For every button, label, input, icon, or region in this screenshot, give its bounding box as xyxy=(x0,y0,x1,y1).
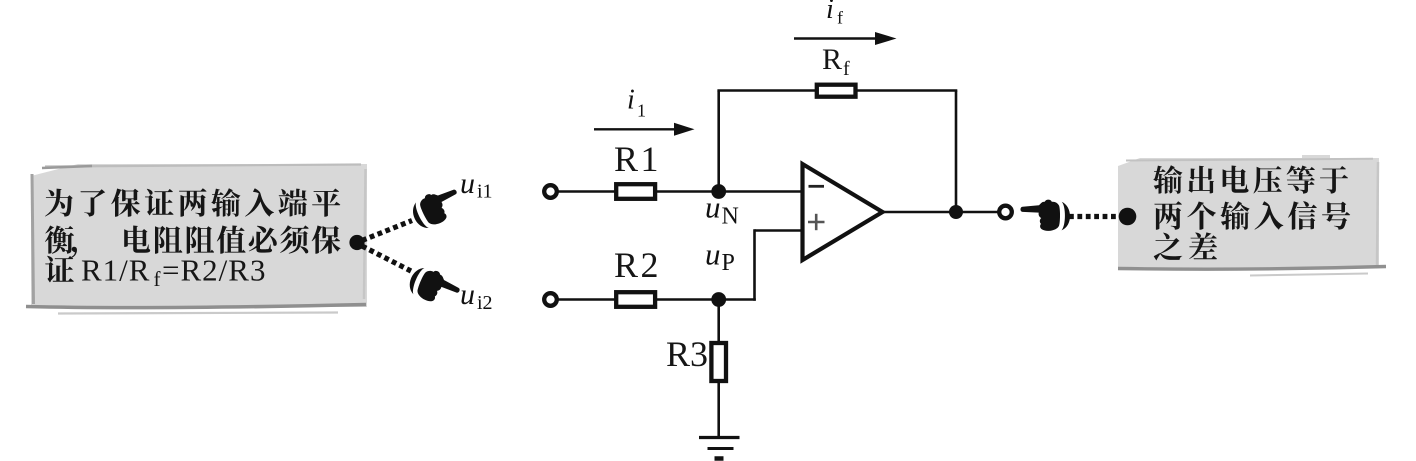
svg-text:f: f xyxy=(154,267,161,291)
wire: feedback top left segment xyxy=(717,89,817,92)
left note callout box xyxy=(26,164,367,314)
pointing hand icon (upper, toward u_i1) xyxy=(408,182,466,232)
svg-text:1: 1 xyxy=(637,101,646,121)
label u_i2 xyxy=(460,278,493,314)
ground symbol xyxy=(699,438,740,459)
wire: R3 to ground xyxy=(717,381,720,438)
current arrow i_f xyxy=(794,32,897,45)
right note text line 1 xyxy=(1153,165,1348,194)
label i_f xyxy=(826,0,843,28)
node u_N junction dot xyxy=(711,184,726,199)
resistor R3 xyxy=(711,343,726,381)
svg-text:R3: R3 xyxy=(666,334,708,374)
wire: op-amp output xyxy=(883,211,1000,214)
label R_f xyxy=(822,43,850,80)
svg-text:u: u xyxy=(460,278,475,311)
input terminal 2 (u_i2) xyxy=(544,293,557,306)
wire: feedback riser from u_N xyxy=(717,91,720,192)
svg-text:f: f xyxy=(843,58,850,80)
pointing hand icon (lower, toward u_i2) xyxy=(405,263,463,311)
svg-text:u: u xyxy=(705,237,721,272)
label u_P xyxy=(705,237,735,277)
dotted leader to hand u_i2 xyxy=(362,246,411,271)
label u_N xyxy=(705,190,739,230)
wire: u_P down to R3 xyxy=(717,300,720,344)
svg-text:u: u xyxy=(705,190,721,225)
current arrow i_1 xyxy=(594,123,695,136)
wire: R1 to inverting input (through node u_N) xyxy=(655,190,802,193)
resistor R1 xyxy=(616,184,655,199)
wire: terminal 1 to R1 xyxy=(557,190,616,193)
right note text line 3 xyxy=(1154,232,1217,260)
node u_P junction dot xyxy=(711,292,726,307)
wire: R2 to node u_P xyxy=(655,298,720,301)
svg-text:=R2/R3: =R2/R3 xyxy=(162,253,266,288)
left note text line 2 xyxy=(45,225,341,257)
right note callout box xyxy=(1118,155,1386,276)
left note text line 3 (证) xyxy=(45,256,74,283)
wire: non-inverting input horizontal xyxy=(755,229,803,232)
svg-text:i: i xyxy=(627,85,635,116)
dotted leader to right note xyxy=(1069,214,1120,219)
left note text line 3 formula R1/Rf=R2/R3 xyxy=(81,253,266,292)
svg-text:P: P xyxy=(722,250,735,276)
leader dot on left note box xyxy=(349,235,364,250)
label i_1 xyxy=(627,85,646,121)
resistor R2 xyxy=(616,292,655,307)
svg-text:R1: R1 xyxy=(614,139,661,179)
svg-text:i: i xyxy=(826,0,834,25)
svg-text:N: N xyxy=(722,204,739,230)
output terminal xyxy=(999,206,1012,219)
svg-text:u: u xyxy=(460,167,475,200)
resistor Rf xyxy=(817,85,856,97)
leader dot on right note box xyxy=(1119,208,1137,226)
op-amp inverting pin mark (-) xyxy=(809,185,825,188)
op-amp U1 triangle xyxy=(803,164,883,260)
dotted leader to hand u_i1 xyxy=(362,221,412,241)
wire: feedback top right segment xyxy=(855,89,957,92)
wire: terminal 2 to R2 xyxy=(557,298,616,301)
svg-text:R1/R: R1/R xyxy=(81,253,150,288)
svg-text:R2: R2 xyxy=(614,245,661,285)
svg-text:f: f xyxy=(837,8,843,28)
svg-text:i2: i2 xyxy=(477,292,493,314)
pointing hand icon (output, toward terminal) xyxy=(1020,200,1070,231)
svg-text:i1: i1 xyxy=(477,181,493,203)
op-amp non-inverting pin mark (+) xyxy=(808,214,825,230)
wire: non-inverting input riser xyxy=(753,229,756,301)
input terminal 1 (u_i1) xyxy=(544,185,557,198)
output junction node xyxy=(949,205,963,219)
wire: feedback riser to output node xyxy=(955,91,958,213)
wire: u_P to riser xyxy=(719,298,756,301)
left note text line 1 xyxy=(45,188,340,217)
right note text line 2 xyxy=(1154,201,1350,230)
svg-text:R: R xyxy=(822,43,842,76)
label u_i1 xyxy=(460,167,493,203)
